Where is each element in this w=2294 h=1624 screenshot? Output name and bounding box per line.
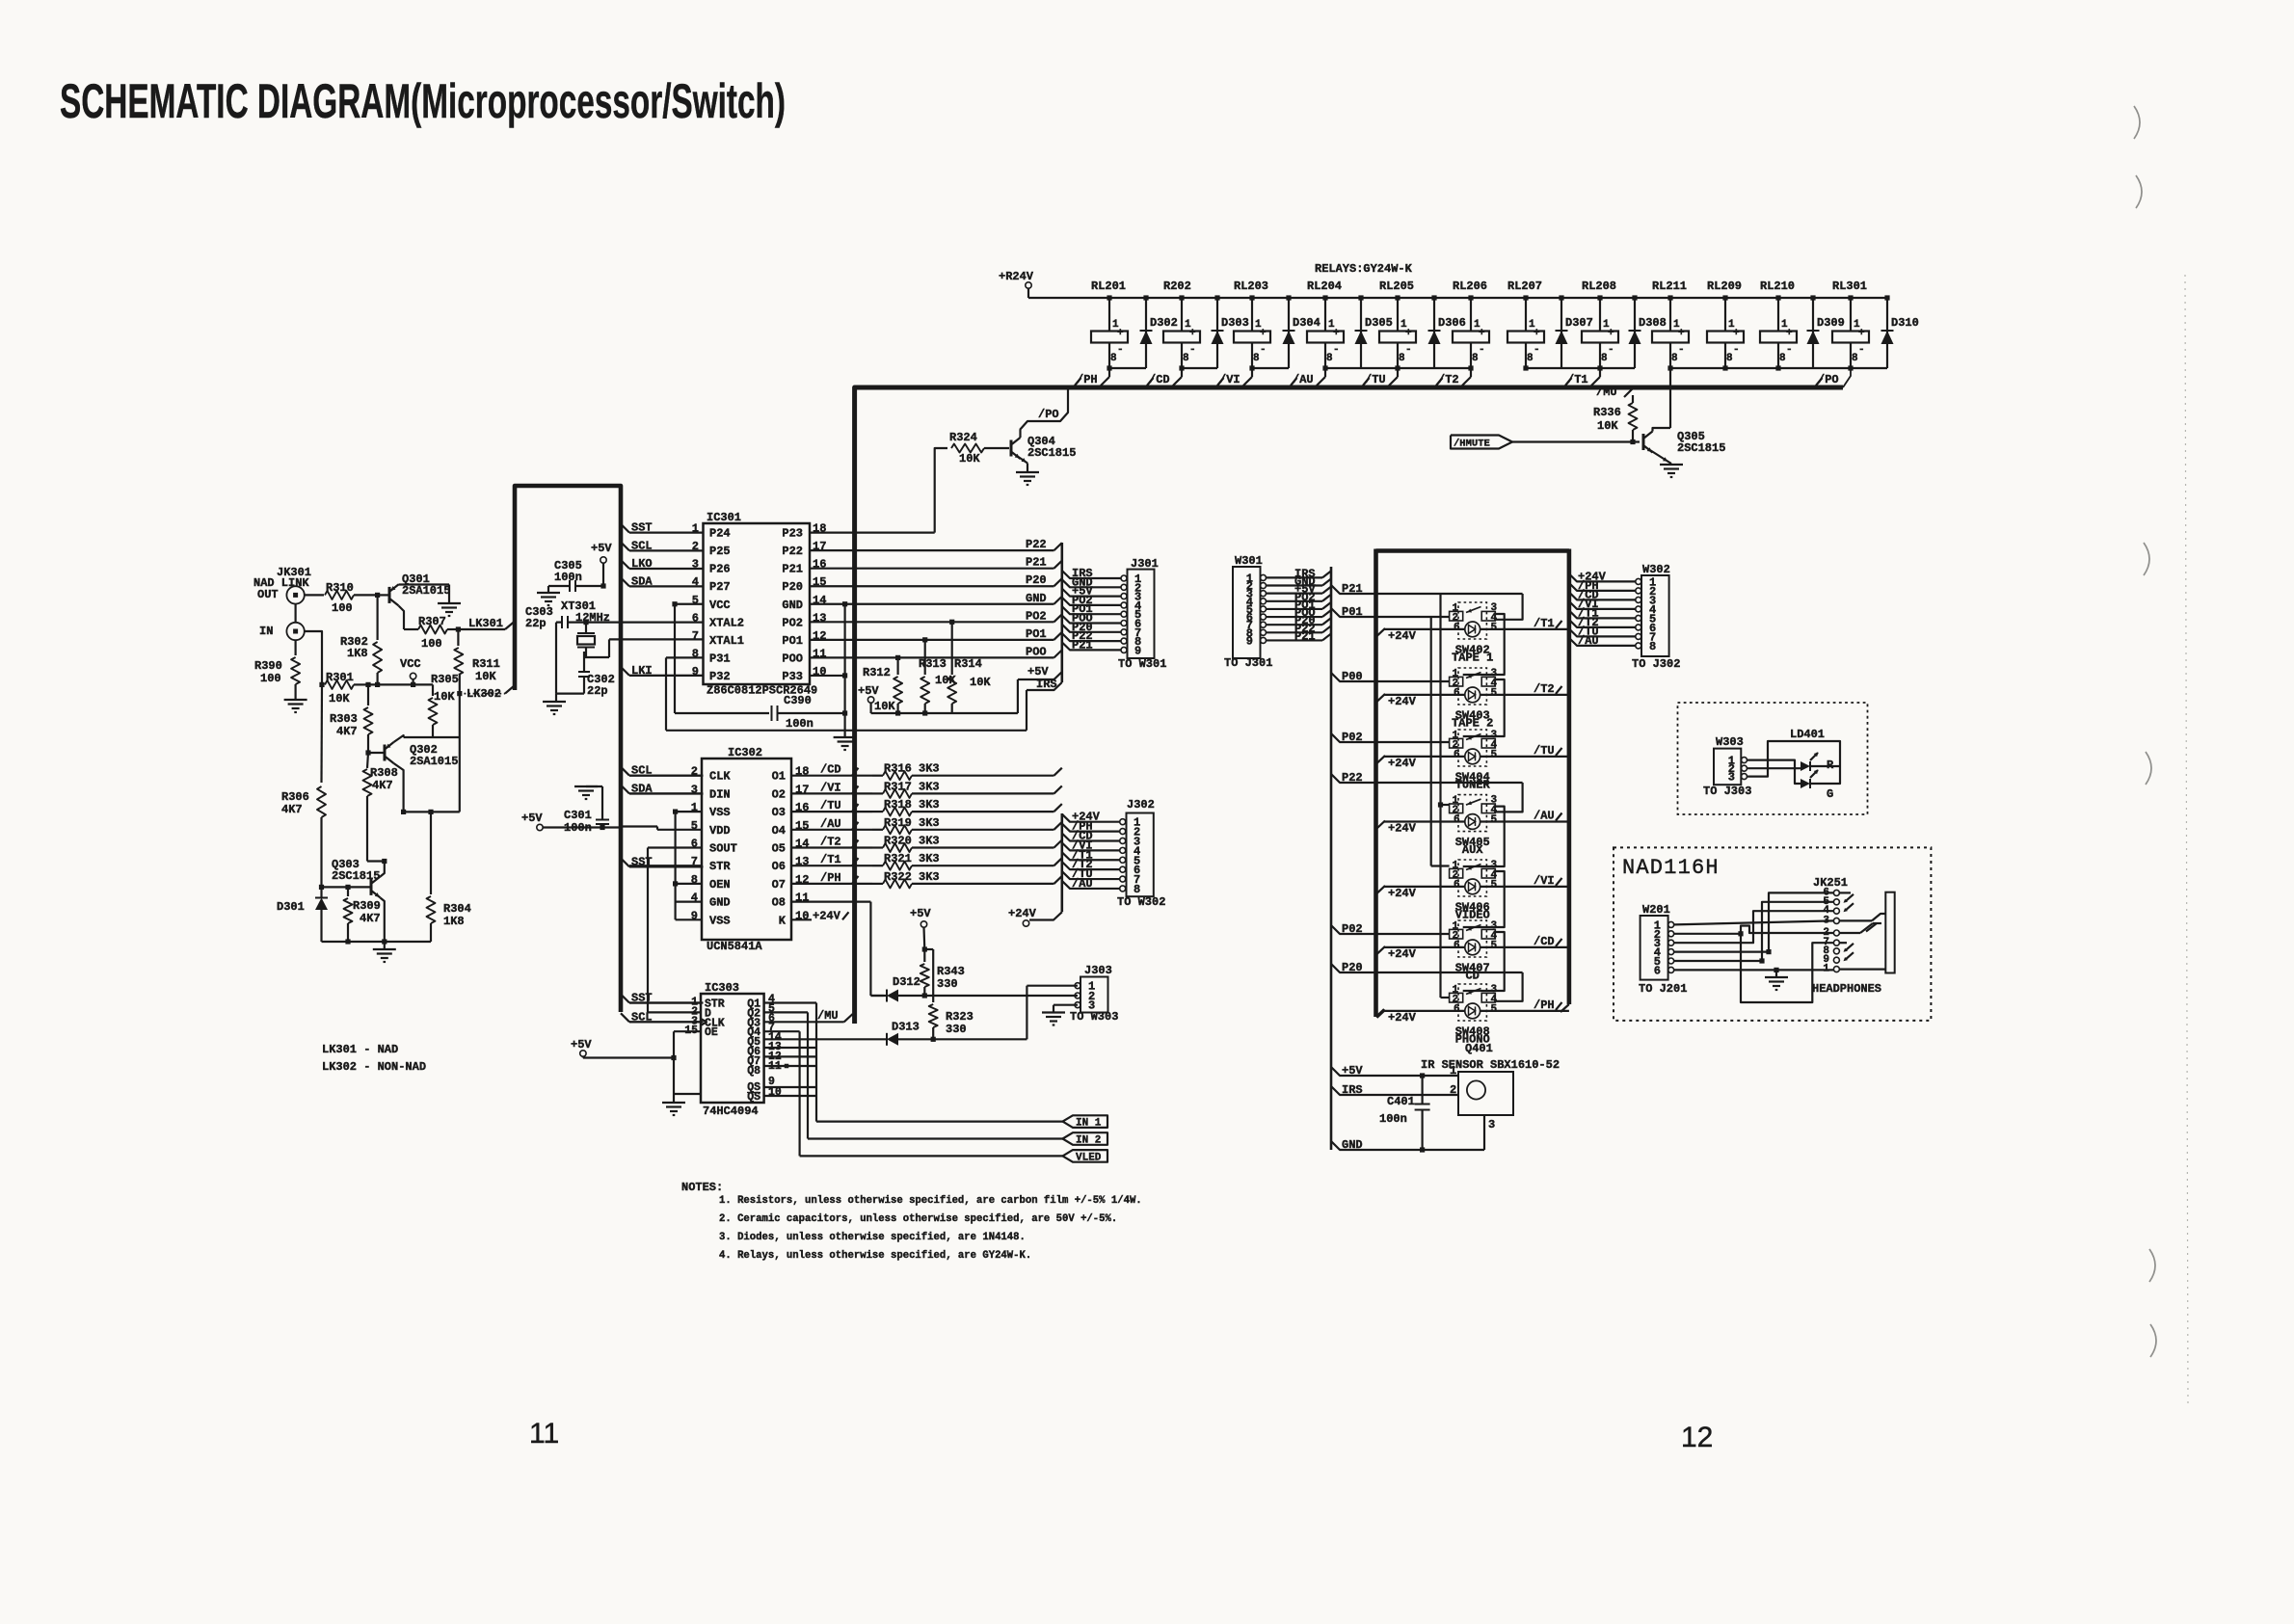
wire switch chain hook <box>1463 871 1505 927</box>
svg-text:/MU: /MU <box>1596 386 1617 399</box>
svg-text:R304: R304 <box>443 902 471 916</box>
svg-text:GND: GND <box>1026 592 1047 605</box>
svg-text:DIN: DIN <box>709 787 731 801</box>
wire Q301 collector <box>399 606 405 630</box>
svg-text:RELAYS:GY24W-K: RELAYS:GY24W-K <box>1315 262 1413 276</box>
svg-text:J302: J302 <box>1127 798 1155 812</box>
wire switch chain hook <box>1463 679 1505 736</box>
svg-text:D304: D304 <box>1293 316 1320 330</box>
svg-text:100n: 100n <box>554 571 582 584</box>
svg-text:TO W301: TO W301 <box>1118 657 1166 671</box>
wire JK301 link <box>295 604 297 623</box>
label W301 pin signals <box>1294 567 1316 643</box>
svg-text:2SC1815: 2SC1815 <box>332 869 380 883</box>
svg-text:R305: R305 <box>431 673 459 686</box>
svg-text:O7: O7 <box>772 878 786 892</box>
svg-text:R343: R343 <box>937 965 965 978</box>
svg-text:5: 5 <box>1491 941 1498 952</box>
svg-text:RL301: RL301 <box>1832 280 1867 293</box>
svg-text:+R24V: +R24V <box>999 270 1034 283</box>
wire pullup rail to +5V riser <box>871 712 1018 714</box>
svg-text:RL208: RL208 <box>1582 280 1616 293</box>
jack JK251 headphone body <box>1885 892 1894 973</box>
svg-text:/PO: /PO <box>1818 373 1839 386</box>
diode D303 <box>1212 295 1249 368</box>
svg-text:RL207: RL207 <box>1507 280 1542 293</box>
svg-text:+5V: +5V <box>521 812 543 825</box>
ground at R390 <box>284 699 307 701</box>
resistor R308 4K7 <box>363 753 398 862</box>
svg-text:D309: D309 <box>1817 316 1845 330</box>
wire Q5 to D313 <box>764 1038 816 1040</box>
svg-text:10K: 10K <box>874 700 895 713</box>
svg-text:3: 3 <box>1488 1118 1495 1131</box>
svg-text:1K8: 1K8 <box>347 647 368 660</box>
node /T2 bus tap <box>1436 368 1471 386</box>
svg-text:8: 8 <box>1671 353 1678 364</box>
svg-text:R320 3K3: R320 3K3 <box>884 835 940 848</box>
jack JK301 OUT <box>286 586 304 603</box>
ground at Q301 <box>438 602 461 604</box>
wire GND net vertical to ground <box>843 604 845 736</box>
ic Q401 IR SENSOR SBX1610-52 <box>1421 1042 1560 1131</box>
svg-text:AUX: AUX <box>1462 843 1483 857</box>
connector W201 <box>1640 903 1674 980</box>
svg-text:/HMUTE: /HMUTE <box>1454 439 1490 450</box>
wire P23 riser to R324 <box>935 448 947 533</box>
svg-text:PO1: PO1 <box>782 634 803 648</box>
svg-text:3: 3 <box>692 558 699 572</box>
svg-text:+: + <box>1405 328 1412 339</box>
svg-text:W201: W201 <box>1642 903 1670 917</box>
node P01 stub into switch matrix <box>1331 605 1450 619</box>
svg-text:+5V: +5V <box>1027 665 1049 679</box>
svg-text:R323: R323 <box>946 1010 974 1024</box>
node SCL stub <box>621 764 704 778</box>
svg-text:P23: P23 <box>782 527 803 541</box>
svg-text:2. Ceramic capacitors, unless: 2. Ceramic capacitors, unless otherwise … <box>719 1213 1117 1225</box>
wire O4 output /AU <box>791 829 872 831</box>
wire Q4 to VLED flag <box>764 1030 800 1032</box>
wire R308 to Q303 collector rail <box>367 860 385 862</box>
svg-text:/AU: /AU <box>1534 810 1555 823</box>
ground IC301 GND <box>834 736 857 738</box>
svg-text:RL201: RL201 <box>1091 280 1126 293</box>
wire J303 pin3 to ground <box>1054 1004 1078 1006</box>
svg-text:+5V: +5V <box>858 684 879 698</box>
svg-text:/PH: /PH <box>1077 373 1098 386</box>
bus control bus thick line <box>855 387 1843 1024</box>
svg-text:NOTES:: NOTES: <box>681 1181 723 1194</box>
wire switch chain hook <box>1463 932 1505 991</box>
svg-text:D306: D306 <box>1438 316 1466 330</box>
wire HMUTE to Q305 base <box>1512 440 1640 442</box>
svg-text:Q401: Q401 <box>1465 1042 1493 1055</box>
resistor R343 330 <box>920 949 965 996</box>
relay RL301 <box>1832 280 1869 371</box>
wire /T2 output SW403 <box>1480 682 1569 696</box>
svg-text:RL210: RL210 <box>1760 280 1795 293</box>
capacitor C302 22p <box>556 623 615 698</box>
resistor R322 3K3 <box>872 870 1062 889</box>
svg-text:J303: J303 <box>1084 964 1112 977</box>
wire Q401 pin3 to GND line <box>1483 1115 1485 1150</box>
ground at C302 <box>555 694 557 701</box>
node P22 stub into switch matrix <box>1331 771 1523 785</box>
wire /T1 output SW402 <box>1480 617 1569 630</box>
node P21 stub into switch matrix <box>1331 582 1523 596</box>
svg-text:O5: O5 <box>772 842 786 856</box>
svg-text:5: 5 <box>1491 814 1498 826</box>
svg-text:+: + <box>1678 328 1685 339</box>
svg-text:+: + <box>1608 328 1614 339</box>
svg-text:LK302 - NON-NAD: LK302 - NON-NAD <box>322 1060 426 1074</box>
svg-text:+24V: +24V <box>1388 822 1417 836</box>
svg-text:2SA1015: 2SA1015 <box>402 584 450 598</box>
svg-text:P21: P21 <box>1026 556 1047 570</box>
svg-text:6: 6 <box>1454 880 1460 892</box>
svg-text:4: 4 <box>692 575 699 589</box>
transistor Q303 2SC1815 <box>322 858 381 897</box>
wire IC303 left pins <box>629 1001 701 1003</box>
svg-text:TO W303: TO W303 <box>1070 1010 1118 1024</box>
svg-text:+24V: +24V <box>1388 1011 1417 1025</box>
wire +24V feed SW404 <box>1377 756 1465 770</box>
svg-text:6: 6 <box>1454 623 1460 634</box>
wire Q2 to IN 2 flag <box>764 1011 808 1013</box>
svg-text:11: 11 <box>529 1418 559 1450</box>
svg-text:+: + <box>1786 328 1793 339</box>
wire Q303 emitter <box>381 898 385 943</box>
wire /AU output SW405 <box>1480 810 1569 823</box>
svg-text:P21: P21 <box>782 563 803 576</box>
relay R202 <box>1163 280 1200 371</box>
svg-text:IRS: IRS <box>1036 678 1057 691</box>
svg-text:RL206: RL206 <box>1453 280 1487 293</box>
svg-text:R301: R301 <box>326 671 354 684</box>
svg-text:O3: O3 <box>772 806 786 819</box>
node PO1 into J301 bus <box>1026 627 1062 641</box>
svg-text:/T2: /T2 <box>1534 682 1555 696</box>
resistor R321 3K3 <box>872 852 1062 870</box>
svg-text:1. Resistors, unless otherwise: 1. Resistors, unless otherwise specified… <box>719 1195 1142 1207</box>
svg-text:5: 5 <box>1491 1004 1498 1016</box>
switch SW405 AUX <box>1450 795 1498 832</box>
resistor R318 3K3 <box>872 798 1062 816</box>
svg-text:STR: STR <box>709 860 731 873</box>
svg-text:OEN: OEN <box>709 878 731 892</box>
svg-text:8: 8 <box>1134 883 1140 896</box>
svg-text:/T2: /T2 <box>1438 373 1459 386</box>
svg-text:PO2: PO2 <box>1026 609 1047 623</box>
svg-text:RL205: RL205 <box>1379 280 1414 293</box>
svg-text:IC301: IC301 <box>707 511 741 524</box>
svg-text:2: 2 <box>692 540 699 553</box>
ground at C305 <box>547 586 549 592</box>
svg-text:OE: OE <box>705 1026 718 1039</box>
node P02 stub into switch matrix <box>1331 922 1450 936</box>
flag IN 2 <box>1063 1132 1108 1146</box>
resistor R305 10K <box>429 673 459 737</box>
svg-text:330: 330 <box>946 1023 967 1036</box>
svg-text:VLED: VLED <box>1076 1152 1102 1163</box>
svg-text:R308: R308 <box>370 766 398 780</box>
wire VCC pin5 drop to C390 <box>675 603 704 605</box>
relay RL211 <box>1652 280 1689 371</box>
node SDA stub <box>621 783 704 796</box>
transistor Q302 2SA1015 <box>368 742 458 768</box>
transistor Q304 2SC1815 <box>1011 430 1076 471</box>
svg-text:1: 1 <box>692 522 699 536</box>
svg-text:10K: 10K <box>329 692 350 706</box>
svg-text:TAPE 1: TAPE 1 <box>1452 652 1493 665</box>
svg-text:W302: W302 <box>1642 563 1670 576</box>
node LKI stub <box>621 664 704 678</box>
svg-text:R310: R310 <box>326 581 354 595</box>
svg-text:8: 8 <box>1253 353 1260 364</box>
svg-text:10K: 10K <box>434 690 455 704</box>
svg-text:-: - <box>1405 344 1412 356</box>
svg-text:O2: O2 <box>772 787 786 801</box>
jack JK301 IN <box>286 623 304 640</box>
svg-text:+24V: +24V <box>1388 629 1417 643</box>
svg-text:RL204: RL204 <box>1307 280 1342 293</box>
wire P31 IRS line <box>666 656 704 658</box>
svg-text:R316 3K3: R316 3K3 <box>884 762 940 776</box>
resistor R317 3K3 <box>872 780 1062 798</box>
svg-text:/VI: /VI <box>1534 874 1555 888</box>
connector J301 <box>1062 557 1159 658</box>
svg-text:R319 3K3: R319 3K3 <box>884 816 940 830</box>
svg-text:R314: R314 <box>954 657 982 671</box>
wire R305 bottom to LK302 node <box>433 736 460 738</box>
svg-text:TAPE 2: TAPE 2 <box>1452 717 1493 731</box>
svg-text:3: 3 <box>1728 771 1735 785</box>
svg-text:O6: O6 <box>772 860 786 873</box>
svg-text:LK301: LK301 <box>468 617 503 630</box>
svg-text:IN 2: IN 2 <box>1076 1135 1101 1147</box>
svg-text:XTAL1: XTAL1 <box>709 634 744 648</box>
relay RL203 <box>1234 280 1270 371</box>
capacitor C305 100n <box>548 559 603 592</box>
node P20 stub into switch matrix <box>1331 961 1523 974</box>
switch SW408 PHONO <box>1450 984 1498 1021</box>
svg-text:/VI: /VI <box>820 781 841 794</box>
svg-text:/TU: /TU <box>820 799 841 812</box>
node SST stub <box>621 992 704 1005</box>
svg-text:G: G <box>1827 787 1833 801</box>
svg-text:+: + <box>1189 328 1196 339</box>
node SCL stub <box>621 539 704 552</box>
wire emitter rail at 842 <box>404 811 460 812</box>
svg-text:+: + <box>1260 328 1267 339</box>
diode D313 <box>887 1021 920 1046</box>
resistor R323 330 <box>929 1004 974 1039</box>
svg-text:K: K <box>779 914 787 927</box>
svg-text:CD: CD <box>1465 970 1479 983</box>
wire Q3 to /MU bus <box>764 1009 853 1023</box>
wire P32 to LKI <box>629 675 704 677</box>
svg-text:R317 3K3: R317 3K3 <box>884 780 940 793</box>
bus serial control bus left thick line <box>515 486 621 1012</box>
wire Q301 emitter to ground <box>399 583 450 585</box>
svg-text:JK251: JK251 <box>1813 876 1848 890</box>
binding marks right edge <box>2134 106 2156 1357</box>
ic IC301 Z86C0812PSC microcontroller <box>692 511 827 698</box>
box LD401 dashed area <box>1678 703 1868 814</box>
svg-text:TO J302: TO J302 <box>1632 657 1680 671</box>
svg-text:9: 9 <box>1246 634 1253 648</box>
page fold line <box>2185 275 2188 1407</box>
svg-text:P22: P22 <box>782 545 803 558</box>
svg-text:IC302: IC302 <box>728 746 762 759</box>
wire O5 output /T2 <box>791 846 872 848</box>
wire switch control staple <box>1495 972 1522 1001</box>
diode D312 <box>887 975 920 1002</box>
svg-text:/AU: /AU <box>1578 634 1599 648</box>
relay RL206 <box>1453 280 1489 371</box>
wire D312 line to J303 pin2 <box>870 995 887 997</box>
svg-text:R313: R313 <box>919 657 947 671</box>
diode D309 <box>1807 295 1845 368</box>
wire +24V feed SW403 <box>1377 694 1465 708</box>
svg-text:8: 8 <box>1326 353 1333 364</box>
node /T1 bus tap <box>1565 368 1600 386</box>
svg-text:D313: D313 <box>892 1021 920 1034</box>
svg-text:D308: D308 <box>1639 316 1667 330</box>
svg-text:D312: D312 <box>893 975 920 989</box>
svg-text:22p: 22p <box>587 684 608 698</box>
svg-text:W301: W301 <box>1235 554 1263 568</box>
relay RL201 <box>1091 280 1128 371</box>
svg-text:PO1: PO1 <box>1026 627 1047 641</box>
wire switch control staple <box>1495 594 1522 620</box>
wire Q stub pins <box>764 1047 815 1049</box>
svg-text:/AU: /AU <box>820 817 841 831</box>
resistor R304 1K8 <box>427 812 471 942</box>
svg-text:6: 6 <box>1454 750 1460 761</box>
svg-text:-: - <box>1678 344 1685 356</box>
svg-text:/T1: /T1 <box>820 853 841 866</box>
svg-text:+24V: +24V <box>1388 757 1417 770</box>
svg-text:1K8: 1K8 <box>443 915 465 928</box>
capacitor C301 100n <box>564 786 609 835</box>
svg-text:O8: O8 <box>772 896 786 910</box>
ground at JK251 <box>1765 976 1788 978</box>
svg-text:HEADPHONES: HEADPHONES <box>1812 982 1881 996</box>
svg-text:+: + <box>1733 328 1740 339</box>
svg-text:100: 100 <box>332 601 353 615</box>
node /MU tag below bus right <box>1596 386 1633 399</box>
bus W302 stubs from border <box>1569 570 1636 648</box>
wire /VI output SW406 <box>1480 874 1569 888</box>
wire O2 output /VI <box>791 792 872 794</box>
relay RL209 <box>1707 280 1744 371</box>
node /VI bus tap <box>1217 368 1252 386</box>
svg-text:8: 8 <box>1527 353 1534 364</box>
wire headphone return hook <box>1741 934 1833 1002</box>
svg-text:+5V: +5V <box>910 907 931 920</box>
wire IC301 right pin wires <box>810 533 1054 676</box>
node PO2 into J301 bus <box>1026 609 1062 623</box>
node GND stub <box>1331 1138 1484 1153</box>
svg-text:Q8: Q8 <box>747 1065 760 1078</box>
svg-text:NAD116H: NAD116H <box>1622 856 1720 880</box>
node /PO bus tap at RL301 <box>1816 373 1839 386</box>
node IRS stub to IR sensor <box>1331 1083 1458 1097</box>
svg-text:-: - <box>1733 344 1740 356</box>
svg-text:TO J301: TO J301 <box>1224 656 1272 670</box>
bus W301 vertical wire <box>1330 567 1333 1150</box>
svg-text:R336: R336 <box>1593 406 1621 419</box>
svg-text:R312: R312 <box>863 666 891 679</box>
svg-text:10K: 10K <box>959 452 980 466</box>
bus J302 vertical wire <box>1061 813 1064 912</box>
svg-text:RL203: RL203 <box>1234 280 1268 293</box>
svg-text:/PH: /PH <box>1534 998 1555 1012</box>
svg-text:-: - <box>1189 344 1196 356</box>
resistor R310 100 <box>305 581 380 615</box>
node +5V into J301 bus <box>1027 665 1062 679</box>
diode D305 <box>1355 295 1393 368</box>
svg-text:3. Diodes, unless otherwise sp: 3. Diodes, unless otherwise specified, a… <box>719 1232 1026 1243</box>
node SST stub <box>621 855 704 868</box>
svg-text:P33: P33 <box>782 670 803 683</box>
svg-text:SOUT: SOUT <box>709 842 737 856</box>
wire O8 to D312 <box>791 900 870 902</box>
svg-text:C301: C301 <box>564 809 592 822</box>
diode D308 <box>1629 295 1667 368</box>
svg-text:8: 8 <box>1852 353 1858 364</box>
wire W201 pin2 jog to JK pin2 <box>1674 926 1834 934</box>
svg-text:8: 8 <box>1779 353 1786 364</box>
node /CD bus tap <box>1147 368 1182 386</box>
svg-text:R: R <box>1827 759 1834 772</box>
svg-text:RL211: RL211 <box>1652 280 1687 293</box>
svg-text:/CD: /CD <box>1149 373 1170 386</box>
ground at Q304 emitter <box>1016 471 1039 473</box>
wire /CD output SW407 <box>1480 935 1569 948</box>
svg-text:4K7: 4K7 <box>336 725 358 738</box>
svg-text:9: 9 <box>1134 644 1141 657</box>
svg-text:5: 5 <box>1491 880 1498 892</box>
node LK301 link <box>458 617 514 630</box>
svg-text:P25: P25 <box>709 545 731 558</box>
wire /TU output SW404 <box>1480 744 1569 758</box>
svg-text:/TU: /TU <box>1365 373 1386 386</box>
box switch matrix border <box>1376 548 1569 553</box>
svg-text:O1: O1 <box>772 770 786 784</box>
wire relay-diode bottom rungs <box>1109 367 1887 369</box>
resistor R314 10K <box>947 620 991 713</box>
transistor Q305 2SC1815 <box>1643 428 1725 464</box>
svg-text:10K: 10K <box>475 670 496 683</box>
svg-text:8: 8 <box>1649 640 1656 653</box>
svg-text:8: 8 <box>1472 353 1479 364</box>
svg-text:2SC1815: 2SC1815 <box>1677 441 1725 455</box>
svg-text:P27: P27 <box>709 580 731 594</box>
svg-text:OUT: OUT <box>257 588 279 601</box>
svg-text:-: - <box>1608 344 1614 356</box>
switch SW407 CD <box>1450 920 1498 957</box>
wire switch chain hook <box>1463 614 1505 675</box>
svg-text:D303: D303 <box>1221 316 1249 330</box>
svg-text:-: - <box>1534 344 1540 356</box>
svg-text:+24V: +24V <box>813 909 841 922</box>
svg-text:330: 330 <box>937 977 958 991</box>
svg-text:RL209: RL209 <box>1707 280 1742 293</box>
wire W201 pin1 to JK pin3 <box>1674 920 1834 924</box>
